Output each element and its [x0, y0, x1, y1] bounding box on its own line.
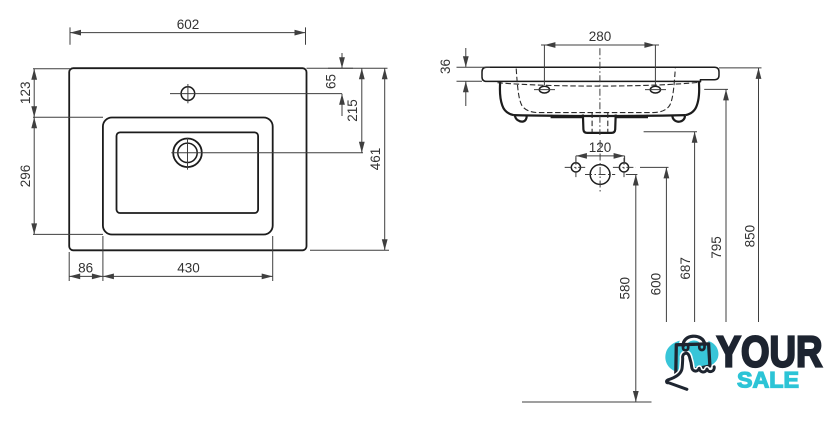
drain outlet circle — [590, 165, 610, 185]
bag handle hooks — [683, 345, 688, 350]
svg-text:215: 215 — [345, 99, 360, 122]
dimension 600 — [640, 167, 669, 322]
svg-text:296: 296 — [18, 165, 33, 188]
dimension 86 (bottom) — [69, 236, 103, 281]
dimension 430 (bottom) — [103, 236, 273, 281]
svg-text:687: 687 — [678, 257, 693, 280]
dimension 850 — [719, 68, 762, 322]
pointing hand halo — [667, 353, 715, 389]
svg-text:795: 795 — [709, 236, 724, 259]
left foot — [515, 115, 527, 121]
right fixing hole — [619, 163, 628, 172]
dimension 65 (right of left figure, outside arrows) — [307, 53, 388, 116]
shopping bag handle (white halo + dark arc) — [683, 336, 705, 346]
drain crosshair + leader to 215 dim — [171, 152, 363, 154]
dimension 296 (left) — [18, 117, 103, 234]
boss hidden pipe dashed — [591, 113, 593, 133]
rim (front view, rounded bar) — [482, 67, 719, 81]
dimension 123 (left) — [18, 69, 103, 118]
svg-text:36: 36 — [438, 59, 453, 74]
svg-text:280: 280 — [589, 29, 612, 44]
drain hole outer circle — [173, 139, 202, 168]
right foot — [672, 116, 685, 122]
left fixing hole — [571, 163, 580, 172]
basin interior hidden outline (dashed) — [516, 69, 675, 113]
rim inner hidden edge (dashed) — [498, 82, 701, 86]
faucet hole crosshair + leader to 65 dim — [170, 93, 342, 95]
svg-text:580: 580 — [617, 277, 632, 300]
dimension 580 — [617, 175, 638, 403]
dimension 120 — [576, 140, 625, 163]
drain boss — [583, 115, 616, 133]
shopping bag body — [676, 344, 710, 373]
svg-text:86: 86 — [78, 261, 93, 276]
svg-text:602: 602 — [177, 17, 200, 32]
svg-text:850: 850 — [742, 225, 757, 248]
dimension 602 (top) — [70, 17, 306, 45]
svg-text:120: 120 — [589, 140, 612, 155]
svg-text:461: 461 — [368, 148, 383, 171]
svg-text:65: 65 — [323, 74, 338, 89]
svg-text:430: 430 — [177, 261, 200, 276]
washbasin outer rim (top view) — [69, 68, 306, 250]
basin inner outline — [117, 132, 259, 213]
logo teal blob — [665, 339, 718, 373]
basin body left outline — [500, 82, 514, 115]
left faucet hole (front) — [539, 86, 549, 93]
svg-text:SALE: SALE — [737, 367, 799, 392]
dimension 280 — [541, 29, 659, 85]
basin outer outline — [103, 118, 273, 235]
right faucet hole (front) — [650, 86, 660, 93]
basin bottom line — [514, 114, 686, 117]
under-basin step channel left — [552, 115, 583, 118]
floor line — [522, 401, 652, 403]
faucet hole (top view) — [181, 87, 195, 101]
center line (dashed) — [599, 48, 601, 135]
svg-text:600: 600 — [649, 273, 664, 296]
basin body right outline — [686, 82, 699, 115]
drain hole inner circle — [178, 143, 197, 162]
under-basin step channel right — [616, 115, 647, 118]
pointing hand — [667, 353, 715, 389]
dimension 795 — [704, 89, 729, 322]
svg-text:123: 123 — [18, 82, 33, 105]
dimension 687 — [644, 132, 698, 322]
dimension 461 — [310, 68, 389, 250]
dimension 36 (outside arrows) — [438, 48, 469, 106]
dimension 215 — [345, 68, 365, 153]
36 extension lines — [457, 66, 491, 68]
